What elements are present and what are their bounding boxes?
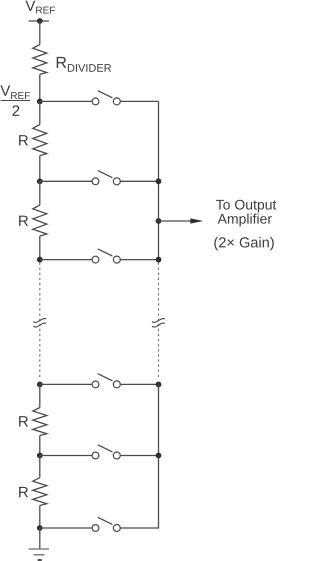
dashed wire left rail xyxy=(39,263,41,378)
wire xyxy=(39,101,41,124)
label R4 xyxy=(19,487,28,497)
node row6 left xyxy=(37,525,43,531)
label VREF xyxy=(25,1,55,14)
break mark right xyxy=(152,318,165,327)
wire xyxy=(39,236,41,260)
switch S4 xyxy=(92,374,120,388)
wire xyxy=(120,455,158,457)
resistor R3 xyxy=(33,408,47,436)
node output xyxy=(156,218,162,224)
node row4 bus xyxy=(156,382,162,388)
node row3 left xyxy=(37,257,43,263)
wire xyxy=(40,455,92,457)
wire xyxy=(120,259,158,261)
wire xyxy=(39,456,41,478)
wire output bus upper xyxy=(158,101,160,259)
node VREF xyxy=(37,18,43,24)
switch S2 xyxy=(92,171,120,185)
switch S6 xyxy=(92,517,120,531)
resistor RDIVIDER xyxy=(33,45,47,75)
node row4 left xyxy=(37,382,43,388)
wire to output amplifier xyxy=(159,220,192,222)
node row5 left xyxy=(37,453,43,459)
wire xyxy=(39,506,41,529)
ground xyxy=(29,549,49,560)
wire xyxy=(40,383,92,385)
label R3 xyxy=(19,416,28,426)
wire xyxy=(40,180,92,182)
wire output bus lower xyxy=(120,384,158,528)
VREF input terminal xyxy=(29,20,49,22)
arrowhead xyxy=(190,218,203,223)
wire xyxy=(120,100,158,102)
node row2 bus xyxy=(156,178,162,184)
resistor R1 xyxy=(33,125,47,156)
switch S1 xyxy=(92,91,120,105)
wire xyxy=(120,180,158,182)
wire xyxy=(39,74,41,101)
label RDIVIDER xyxy=(57,57,111,72)
wire xyxy=(39,156,41,182)
wire xyxy=(39,436,41,456)
resistor R4 xyxy=(33,478,47,506)
wire xyxy=(39,181,41,205)
fraction bar xyxy=(1,100,31,102)
label VREF/2 xyxy=(0,85,30,116)
resistor R2 xyxy=(33,205,47,236)
node row3 bus xyxy=(156,257,162,263)
switch S5 xyxy=(92,445,120,459)
wire xyxy=(39,384,41,407)
wire xyxy=(40,259,92,261)
break mark left xyxy=(33,318,46,327)
node VREF/2 xyxy=(37,99,43,105)
label R2 xyxy=(19,216,28,226)
label R1 xyxy=(19,135,28,145)
switch S3 xyxy=(92,249,120,263)
wire xyxy=(120,383,158,385)
label To Output Amplifier (2x Gain) xyxy=(214,200,276,251)
wire xyxy=(40,527,92,529)
wire xyxy=(40,100,92,102)
node row2 left xyxy=(37,178,43,184)
wire xyxy=(39,21,41,45)
dashed wire output bus xyxy=(158,263,160,378)
wire xyxy=(39,528,41,549)
node row5 bus xyxy=(156,453,162,459)
